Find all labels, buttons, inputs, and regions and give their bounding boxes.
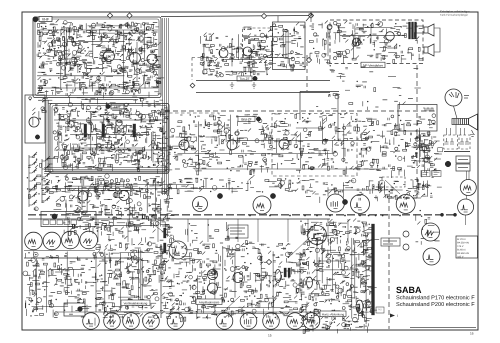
video dashed box 2	[272, 114, 357, 177]
CRT filter box lower	[456, 164, 470, 171]
AGC transistor 2	[119, 191, 129, 201]
VHF tuner box inner	[35, 19, 159, 96]
CRT filter text	[458, 160, 468, 168]
wire chroma vertical	[337, 94, 339, 142]
tuner lower rows	[42, 94, 163, 109]
label VHF	[39, 17, 52, 22]
area below bus left	[104, 222, 252, 249]
wire dashed vertical separator title	[388, 198, 390, 329]
svg-text:Vertikalablenkung: Vertikalablenkung	[124, 301, 148, 305]
svg-text:15: 15	[268, 334, 272, 338]
switch contacts to focus rail	[362, 229, 369, 232]
CRT funnel bell	[469, 114, 478, 130]
wire speaker loop	[434, 28, 440, 52]
pointer line to waveform B6	[222, 296, 240, 313]
sync and frame components	[95, 242, 171, 326]
scope waveform V2	[43, 232, 61, 250]
sync transistor Q12	[233, 273, 243, 283]
scope waveform M1	[193, 197, 208, 212]
label Ton-ZF	[237, 76, 252, 81]
wire bundle vertical left of IF box	[45, 100, 47, 172]
scope waveform B8	[263, 313, 280, 330]
svg-text:VHF: VHF	[42, 17, 50, 21]
sound input pot components	[309, 21, 332, 65]
IF amplifier components	[53, 106, 169, 174]
focus rail black bar	[372, 224, 375, 315]
ground symbol corridor 1	[230, 82, 234, 88]
wire section divider dashed horizontal	[165, 110, 437, 112]
svg-text:\: \	[397, 314, 398, 318]
UHF oscillator tube	[29, 117, 39, 127]
tuner row line	[37, 29, 158, 31]
deflection driver transistor 2	[403, 244, 409, 250]
CRT socket pins	[449, 92, 459, 98]
deflection yoke box	[381, 238, 400, 246]
bottom right small print	[410, 327, 476, 329]
sparse area above sound box	[316, 65, 421, 110]
test point dot 4 (Bild-ZF)	[256, 117, 260, 121]
wire switch bank rail left	[28, 155, 30, 207]
wire CRT column	[466, 171, 468, 180]
tuning box frame	[41, 212, 96, 227]
degaussing black dot	[445, 161, 451, 167]
wire bottom connect line	[55, 311, 338, 313]
wire top distribution line	[161, 16, 313, 17]
wire transformer to speaker	[417, 25, 425, 27]
sync separator top rows	[41, 175, 315, 197]
tuner section components	[37, 20, 164, 99]
IF transformer L1 core	[84, 124, 87, 137]
CRT cap symbols	[445, 138, 470, 144]
pointer line to waveform M8	[150, 222, 180, 244]
scope waveform B6	[216, 313, 233, 330]
test point diamond T2	[127, 13, 132, 18]
tuner transistor Q2	[130, 53, 141, 64]
wire dashed vertical sound	[306, 55, 308, 91]
oscillator tube PCF802	[275, 270, 281, 283]
test point dot 7 (convergence)	[78, 307, 83, 312]
wire vertical divider mid-bottom	[160, 244, 162, 318]
test point diamond T1	[107, 13, 112, 18]
CRT cap box 2 dashed	[459, 135, 470, 149]
horizontal deflection components	[300, 218, 379, 333]
small connector box	[376, 307, 384, 313]
scope waveform B2	[104, 313, 121, 330]
sparse right of bus	[416, 210, 440, 245]
svg-text:16: 16	[470, 332, 474, 336]
bus end dot 1	[440, 213, 443, 216]
svg-text:NF-Verstärker: NF-Verstärker	[363, 64, 384, 68]
label Amplitudensieb	[196, 299, 222, 305]
video dashed box 1	[163, 113, 219, 137]
convergence unit box 2	[432, 171, 441, 177]
sparse area right mid	[413, 131, 441, 177]
delay line meander	[423, 108, 435, 111]
svg-text:Schauinsland P170 electronic F: Schauinsland P170 electronic F	[396, 295, 475, 301]
deflection coupling bar 2	[164, 243, 167, 253]
wire bus vertical drops	[67, 219, 69, 242]
ground symbol corridor 2	[252, 82, 256, 88]
test point diamond corridor	[190, 83, 195, 88]
convergence box	[64, 303, 85, 316]
delay line box	[398, 105, 437, 132]
UHF box contents	[29, 97, 52, 126]
video IF output and AGC components	[60, 174, 175, 237]
label Horiz-Ablenkung	[320, 311, 346, 317]
line output tube PL500	[307, 277, 313, 288]
label Bild-ZF	[238, 117, 255, 122]
pointer line to waveform M6	[288, 237, 310, 258]
video IF transistor V1	[179, 140, 189, 150]
sound IF components	[200, 33, 276, 77]
channel selector switch bank	[29, 152, 50, 205]
wire bundle horizontal below IF box	[44, 167, 168, 169]
test point diamond T5	[306, 57, 311, 62]
scope waveform V3	[62, 231, 80, 249]
top mid decoder box components	[243, 22, 306, 75]
svg-text:Schauinsland P200 electronic F: Schauinsland P200 electronic F	[396, 302, 475, 308]
scope waveform B4	[143, 313, 160, 330]
test point dot 1 (VHF)	[33, 17, 38, 22]
sound output amplifier components	[333, 21, 423, 65]
sound IF transistor A1	[219, 49, 228, 58]
deflection unit dashed box	[382, 177, 405, 187]
test point dot 2 (UHF)	[35, 135, 39, 139]
amplitude box	[228, 225, 248, 238]
label Vertikalablenkung	[121, 300, 150, 306]
area between bus mid-left	[100, 205, 167, 218]
sync transistor Q10	[208, 270, 218, 280]
pointer line to waveform M5	[385, 180, 400, 194]
UHF tuner box	[25, 95, 45, 143]
amplitude sieve components	[166, 241, 307, 322]
chassis corridor band	[196, 80, 330, 82]
IF transformer L3 core	[133, 124, 136, 137]
wire vertical frame left	[95, 252, 97, 312]
audio output transistor	[386, 32, 395, 41]
deflection driver transistor 1	[403, 231, 409, 237]
AGC transistor 1	[78, 191, 88, 201]
info box tube data	[456, 236, 478, 258]
svg-text:Horiz.-Ablenkung: Horiz.-Ablenkung	[322, 312, 345, 316]
loudspeaker LS1	[424, 24, 434, 36]
tuning preset buttons	[43, 220, 49, 225]
decoder box frame	[273, 22, 306, 70]
sound IF dashed boundary	[192, 57, 305, 59]
test point diamond T3	[261, 13, 266, 18]
sound output box dashed	[330, 20, 423, 64]
scope waveform M3	[327, 194, 345, 212]
scope waveform B9	[287, 313, 304, 330]
deflection coupling bar 1	[164, 228, 167, 238]
CRT socket stem	[454, 106, 458, 119]
switch bank wiring	[27, 157, 62, 211]
svg-text:185 V: 185 V	[457, 256, 464, 259]
line output transformer core	[284, 268, 286, 277]
wire under scope circles	[24, 250, 95, 252]
decoder dashed box	[243, 28, 273, 63]
test point dot 5	[217, 193, 222, 198]
scope waveform B5	[167, 313, 184, 330]
audio driver transistor	[353, 38, 361, 46]
wire main supply bus	[28, 214, 455, 216]
line osc rows right	[302, 179, 433, 204]
area right of circles	[379, 177, 442, 199]
CRT wires down	[446, 128, 448, 135]
bus end dot 2	[453, 213, 456, 216]
wire switch bank rail right	[41, 159, 43, 203]
CRT filter box upper	[456, 156, 470, 163]
test point dot 6	[342, 199, 347, 204]
scope waveform R1	[460, 180, 476, 196]
scope waveform M7	[422, 223, 440, 241]
sync transistor Q11	[208, 283, 218, 293]
IF transformer L2 core	[102, 124, 105, 137]
svg-text:Amplitudensieb: Amplitudensieb	[199, 300, 220, 304]
video IF transistor V2	[227, 140, 237, 150]
chroma box corner	[300, 91, 339, 93]
test point dot 3 (tuning)	[52, 214, 57, 219]
scope waveform M9	[423, 248, 440, 265]
tuner transistor Q3	[147, 54, 157, 64]
test point dot Ton-ZF	[253, 76, 257, 80]
IF amplifier box outer	[50, 104, 169, 174]
small box left of CRT	[438, 148, 443, 152]
svg-text:Farb-Fernsehempfänger: Farb-Fernsehempfänger	[440, 13, 468, 17]
scope waveform M8	[169, 241, 187, 259]
IF amplifier box inner	[52, 106, 167, 172]
scope waveform V1	[25, 232, 43, 250]
svg-text:SABA: SABA	[396, 285, 422, 295]
booster tube PY88	[356, 300, 363, 313]
CRT caption text	[444, 151, 470, 153]
test point diamond T4	[308, 13, 313, 18]
sound IF transistor A2	[243, 47, 252, 56]
scope waveform R2	[458, 199, 474, 215]
tuner transistor Q1	[104, 51, 115, 62]
scope waveform B1	[83, 313, 100, 330]
CRT cap box 1 dashed	[444, 135, 458, 149]
test point dot UHF label	[106, 104, 110, 108]
wire dashed vertical separator right	[416, 65, 418, 198]
label NF-Verstaerker	[361, 62, 385, 67]
scope waveform M6	[308, 226, 327, 245]
video IF transistor V3	[279, 139, 289, 149]
CRT ground arrow	[470, 130, 475, 136]
audio output transformer core	[409, 22, 411, 39]
scope waveform B3	[123, 313, 140, 330]
CRT tube socket circle	[445, 89, 462, 106]
scope waveform V4	[80, 231, 98, 249]
video amplifier band components	[166, 112, 442, 178]
test point dot 5b	[270, 193, 275, 198]
test point diamond T6	[266, 259, 271, 264]
CRT socket labels	[464, 96, 469, 99]
loudspeaker LS2	[424, 44, 434, 56]
IF row line 1	[54, 119, 165, 121]
wire bottom block top edge	[24, 257, 140, 259]
wire secondary bus	[28, 218, 330, 220]
scope waveform B10	[303, 313, 320, 330]
wire bundle channel selector vertical	[162, 18, 164, 195]
antenna arrow	[306, 14, 312, 21]
scope waveform M2	[253, 196, 271, 214]
label UHF	[111, 104, 124, 109]
VHF tuner box outer	[33, 17, 161, 98]
connector arrow out	[390, 314, 395, 318]
wire drop to decoder	[277, 16, 279, 22]
vertical deflection components	[23, 251, 98, 317]
convergence unit box 1	[421, 171, 430, 177]
IF transistor T1	[68, 121, 74, 127]
scope waveform M5	[396, 195, 415, 214]
scope waveform B7	[240, 313, 257, 330]
CRT neck striped	[452, 119, 469, 125]
wire dashed jog horizontal	[389, 197, 417, 199]
IF row line 2	[54, 149, 160, 151]
scope waveform M4	[351, 195, 370, 214]
svg-text:Bild-ZF: Bild-ZF	[241, 117, 251, 121]
IF transistor T2	[116, 120, 122, 126]
